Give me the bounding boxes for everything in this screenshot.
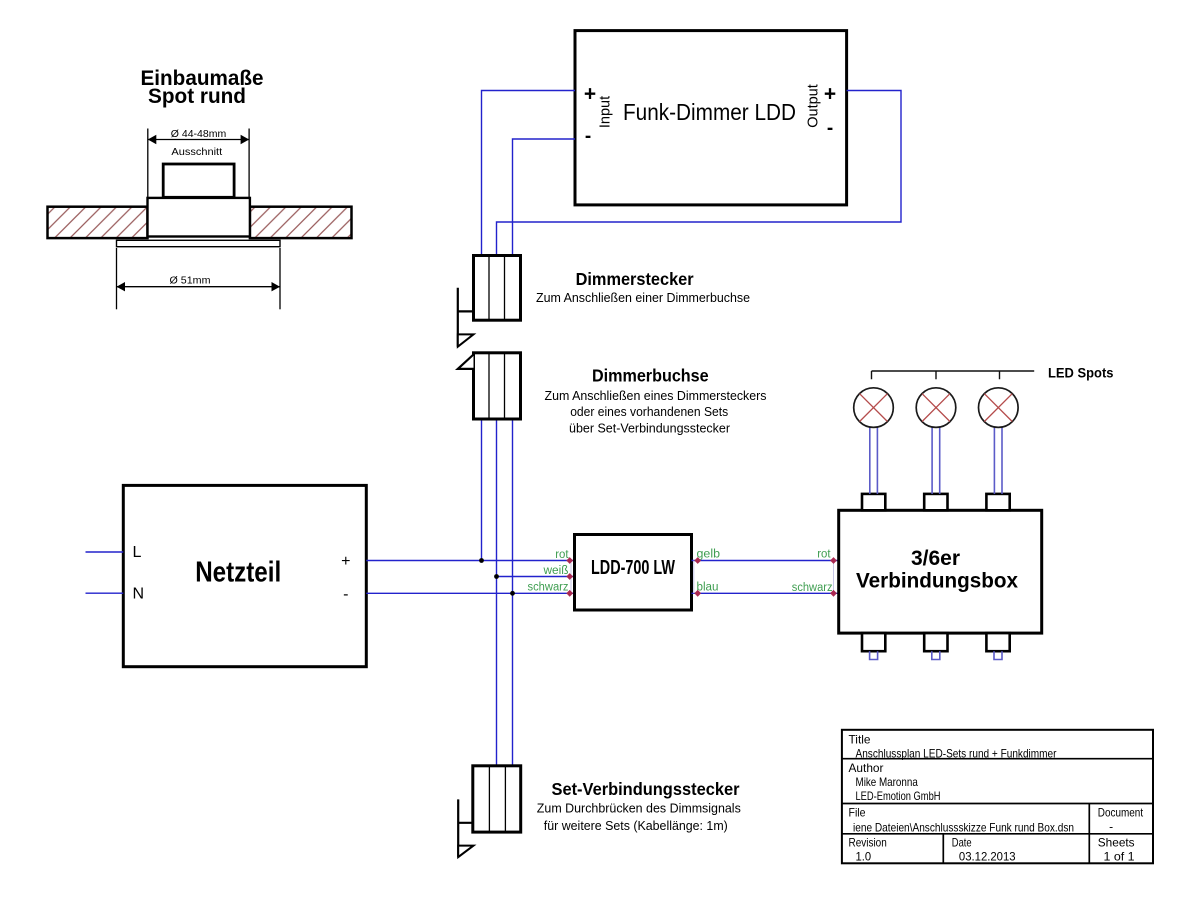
- blue stub 3: [994, 651, 1002, 659]
- svg-text:Ausschnitt: Ausschnitt: [171, 146, 222, 158]
- bottom connector 2: [924, 633, 947, 651]
- label Dimmerstecker: [536, 269, 750, 305]
- wire weiss vertical below Dimmerbuchse to Set-Verbindungsstecker: [496, 419, 498, 766]
- wire plus rot from Netzteil to LDD-700: [366, 560, 574, 562]
- svg-text:LED Spots: LED Spots: [1048, 366, 1114, 381]
- wire minus schwarz from Netzteil to LDD-700: [366, 592, 574, 594]
- svg-text:+: +: [824, 83, 836, 106]
- svg-text:Funk-Dimmer LDD: Funk-Dimmer LDD: [623, 99, 796, 125]
- wire N input: [86, 592, 124, 594]
- svg-text:3/6er: 3/6er: [911, 547, 960, 570]
- svg-text:Output: Output: [805, 84, 821, 128]
- pin marker rot LDD left: [566, 557, 573, 564]
- svg-text:Dimmerstecker: Dimmerstecker: [576, 269, 694, 289]
- Dimmerstecker connector J1: [474, 256, 521, 321]
- pin marker blau LDD right: [694, 590, 701, 597]
- wire rot vertical below Dimmerbuchse: [481, 419, 483, 561]
- bottom connector 3: [986, 633, 1009, 651]
- wire output plus return loop to vertical weiss: [497, 91, 902, 256]
- label Dimmerbuchse: [545, 366, 767, 436]
- blue stub 1: [870, 651, 878, 659]
- spot housing upper: [163, 164, 234, 197]
- svg-text:iene Dateien\Anschlussskizze F: iene Dateien\Anschlussskizze Funk rund B…: [853, 820, 1074, 834]
- svg-text:Input: Input: [597, 96, 613, 128]
- top connector 2: [924, 494, 947, 510]
- junction dot schwarz: [510, 591, 515, 596]
- label Set-Verbindungsstecker: [537, 779, 741, 833]
- svg-text:gelb: gelb: [697, 549, 721, 561]
- svg-text:schwarz: schwarz: [528, 582, 569, 594]
- wire input plus from Funk-Dimmer to vertical rot: [482, 91, 576, 256]
- svg-text:Mike Maronna: Mike Maronna: [856, 775, 919, 789]
- pin bar left of LDD-700: [570, 561, 572, 594]
- svg-text:blau: blau: [697, 582, 719, 594]
- LDD-700 LW box U2: [575, 535, 692, 611]
- Dimmerbuchse connector J2: [474, 353, 521, 419]
- svg-text:-: -: [585, 126, 591, 147]
- svg-text:rot: rot: [555, 549, 569, 561]
- svg-text:Author: Author: [849, 761, 884, 775]
- pin marker rot Verbindungsbox: [830, 557, 837, 564]
- pin marker schwarz Verbindungsbox: [830, 590, 837, 597]
- svg-text:Dimmerbuchse: Dimmerbuchse: [592, 366, 709, 386]
- svg-text:L: L: [133, 544, 142, 561]
- svg-text:Ø 51mm: Ø 51mm: [170, 275, 211, 287]
- svg-text:+: +: [341, 553, 350, 570]
- title Einbaumasse Spot rund: [141, 66, 264, 108]
- svg-text:Zum Anschließen einer Dimmerbu: Zum Anschließen einer Dimmerbuchse: [536, 290, 750, 305]
- svg-text:oder eines vorhandenen Sets: oder eines vorhandenen Sets: [570, 404, 728, 419]
- svg-text:Zum Durchbrücken des Dimmsigna: Zum Durchbrücken des Dimmsignals: [537, 800, 741, 815]
- Dimmerstecker latch symbol: [458, 288, 474, 347]
- wire weiss from vertical to LDD-700: [497, 576, 575, 578]
- wire input minus from Funk-Dimmer to vertical schwarz: [513, 139, 576, 256]
- pin marker schwarz LDD left: [566, 590, 573, 597]
- ceiling slab hatched right: [250, 207, 352, 238]
- pin marker weiss LDD left: [566, 573, 573, 580]
- svg-text:Netzteil: Netzteil: [195, 556, 281, 588]
- svg-text:weiß: weiß: [542, 565, 568, 577]
- junction dot rot: [479, 558, 484, 563]
- svg-text:-: -: [827, 118, 833, 139]
- ceiling slab hatched left: [48, 207, 148, 238]
- svg-text:Spot rund: Spot rund: [148, 84, 246, 108]
- pin bar left of Verbindungsbox: [833, 561, 835, 594]
- svg-text:+: +: [584, 83, 596, 106]
- LED spot lamp 1: [854, 388, 894, 494]
- Set-Verbindungsstecker connector J3: [473, 766, 521, 832]
- spot flange: [117, 240, 281, 246]
- svg-text:Document: Document: [1098, 805, 1144, 819]
- svg-text:schwarz: schwarz: [792, 582, 833, 594]
- svg-text:LDD-700 LW: LDD-700 LW: [591, 557, 675, 579]
- Set-Verbindungsstecker latch symbol: [458, 799, 473, 857]
- top connector 1: [862, 494, 885, 510]
- svg-text:03.12.2013: 03.12.2013: [959, 849, 1016, 863]
- dimension D 44-48mm Ausschnitt: [148, 128, 249, 198]
- svg-text:File: File: [849, 805, 866, 819]
- svg-text:LED-Emotion GmbH: LED-Emotion GmbH: [856, 789, 941, 803]
- svg-text:Title: Title: [849, 733, 871, 747]
- LED Spots leader line: [872, 366, 1114, 381]
- svg-text:Verbindungsbox: Verbindungsbox: [856, 570, 1018, 593]
- Funk-Dimmer LDD box U1: [575, 31, 847, 205]
- svg-text:über Set-Verbindungsstecker: über Set-Verbindungsstecker: [569, 420, 731, 435]
- svg-text:Revision: Revision: [849, 835, 887, 849]
- svg-text:rot: rot: [817, 548, 831, 560]
- Netzteil box PSU: [123, 485, 366, 666]
- svg-text:1 of 1: 1 of 1: [1104, 849, 1135, 863]
- bottom connector 1: [862, 633, 885, 651]
- wire L input: [86, 551, 124, 553]
- Verbindungsbox 3/6er: [839, 510, 1042, 633]
- LED spot lamp 3: [979, 388, 1019, 494]
- pin bar right of LDD-700: [693, 561, 695, 594]
- title block: [842, 730, 1153, 864]
- spot housing lower: [148, 198, 250, 237]
- svg-text:Set-Verbindungsstecker: Set-Verbindungsstecker: [552, 779, 740, 799]
- svg-text:für weitere Sets (Kabellänge:: für weitere Sets (Kabellänge: 1m): [544, 818, 728, 833]
- dimension D 51mm: [117, 248, 281, 309]
- svg-text:N: N: [133, 586, 145, 603]
- svg-text:1.0: 1.0: [856, 849, 872, 863]
- svg-text:Date: Date: [952, 835, 972, 849]
- top connector 3: [986, 494, 1009, 510]
- svg-text:-: -: [1109, 819, 1113, 833]
- LED spot lamp 2: [916, 388, 956, 494]
- svg-text:-: -: [343, 586, 348, 603]
- Dimmerbuchse latch symbol: [458, 355, 474, 369]
- svg-text:Anschlussplan LED-Sets rund +: Anschlussplan LED-Sets rund + Funkdimmer: [856, 747, 1057, 761]
- junction dot weiss: [494, 574, 499, 579]
- wire schwarz vertical below Dimmerbuchse to Set-Verbindungsstecker: [512, 419, 514, 832]
- blue stub 2: [932, 651, 940, 659]
- pin marker gelb LDD right: [694, 557, 701, 564]
- wire gelb from LDD-700 to Verbindungsbox: [692, 560, 839, 562]
- wire blau from LDD-700 to Verbindungsbox: [692, 592, 839, 594]
- svg-text:Sheets: Sheets: [1098, 835, 1135, 849]
- svg-text:Ø 44-48mm: Ø 44-48mm: [171, 128, 227, 140]
- svg-text:Zum Anschließen eines Dimmerst: Zum Anschließen eines Dimmersteckers: [545, 388, 767, 403]
